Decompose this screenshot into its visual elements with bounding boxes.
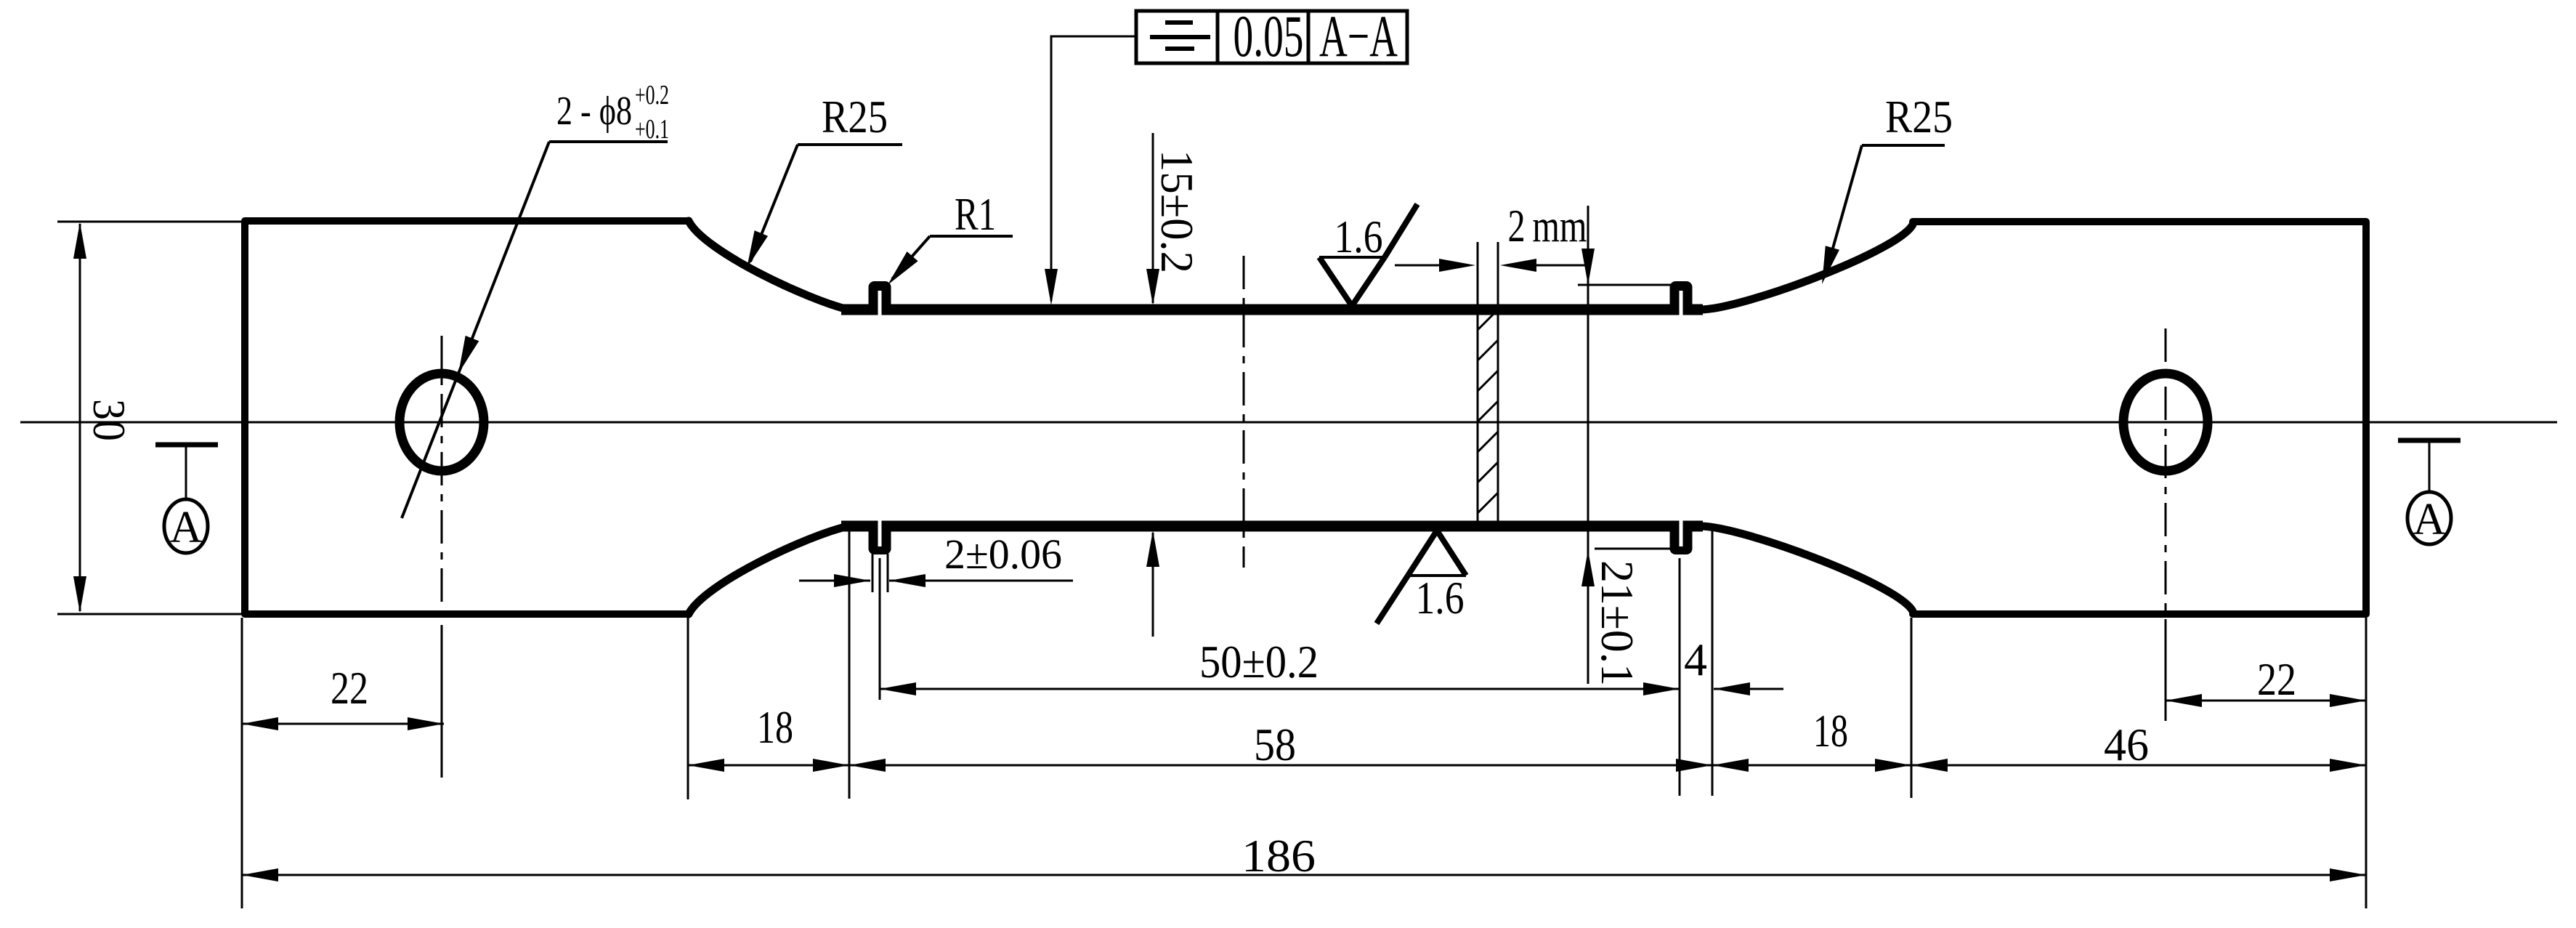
dim 50±0.2 arrow left <box>880 682 916 695</box>
svg-text:R25: R25 <box>1885 91 1953 142</box>
svg-text:4: 4 <box>1684 634 1707 685</box>
gauge section bottom edge <box>841 521 1703 532</box>
svg-text:18: 18 <box>1813 705 1848 756</box>
ext line x2631 <box>1911 618 1913 798</box>
dim 50±0.2 arrow right <box>1643 682 1680 695</box>
R25 fillet top-right <box>1700 222 1913 310</box>
section mark right bar <box>2398 438 2460 443</box>
hole right (phi8) <box>2123 374 2208 471</box>
hatch diagonal lines <box>1478 310 1498 330</box>
svg-text:21±0.1: 21±0.1 <box>1592 560 1643 686</box>
label R1 underline <box>930 235 1013 238</box>
label R25 left underline <box>798 143 902 146</box>
gauge section top edge <box>841 304 1703 315</box>
surface symbol top (1.6) <box>1319 257 1385 306</box>
svg-text:46: 46 <box>2104 719 2149 770</box>
tolerance frame dividers <box>1216 11 1220 63</box>
ext line notch bottom plane <box>1595 548 1675 550</box>
dim 186 arrows <box>242 868 278 881</box>
section mark left bar <box>155 443 218 448</box>
dim 15±0.2 down arrow <box>1146 269 1159 305</box>
vertical centerline left hole <box>441 336 443 625</box>
dim 21±0.1 down arrow <box>1581 249 1595 285</box>
R25 fillet top-left <box>689 221 848 310</box>
dim 46 arrows <box>1911 759 1948 772</box>
ext line x947 <box>687 618 689 799</box>
surface symbol bottom (1.6) <box>1408 530 1466 576</box>
label R25 left arrow <box>747 230 768 268</box>
frame leader arrow <box>1045 269 1058 305</box>
R1 notch top-right <box>1670 281 1693 315</box>
dim 18 right arrows <box>1712 759 1749 772</box>
ext line x1169 <box>848 531 851 799</box>
dim 2±0.06 left arrow <box>834 574 870 587</box>
dim 30 arrow up <box>73 222 86 259</box>
ext line x2357 <box>1712 531 1714 796</box>
section mark left circle <box>164 499 208 553</box>
label R25 right leader <box>1826 145 1862 274</box>
svg-text:2 - ϕ8: 2 - ϕ8 <box>556 89 632 134</box>
svg-text:1.6: 1.6 <box>1334 211 1383 262</box>
dim 30 line <box>79 224 81 611</box>
dim 2mm left shaft <box>1395 265 1442 267</box>
label R25 right underline <box>1862 144 1945 147</box>
dim 2mm left arrow <box>1439 259 1475 272</box>
label 2-phi8 leader <box>402 142 549 518</box>
ext line bottom-left <box>57 613 241 616</box>
label 2-phi8 leader arrow <box>458 336 479 374</box>
dim 186 line <box>242 874 2366 876</box>
dim 2mm right shaft <box>1533 265 1588 267</box>
dim 46 line <box>1911 764 2366 767</box>
svg-text:+0.1: +0.1 <box>635 114 669 145</box>
dim 2±0.06 right shaft <box>889 580 1073 582</box>
label R1 leader <box>892 236 930 279</box>
dim 50±0.2 line <box>880 688 1680 690</box>
svg-text:58: 58 <box>1254 719 1296 770</box>
hatch band left line <box>1477 242 1479 525</box>
ext lines 2±0.06 <box>872 554 874 592</box>
specimen left grip outline <box>245 221 689 614</box>
svg-text:+0.2: +0.2 <box>635 80 669 110</box>
dim 15±0.2 lower line <box>1152 533 1154 637</box>
svg-text:A: A <box>2413 495 2446 544</box>
dim 22 left line <box>242 723 444 725</box>
dim 58 arrows <box>849 759 886 772</box>
hole left (phi8) <box>400 374 484 471</box>
svg-text:2 mm: 2 mm <box>1508 200 1587 251</box>
dim 58 line <box>849 764 1712 767</box>
dim 4 arrow <box>1714 682 1750 695</box>
ext line x2312 (notch center) <box>1679 558 1681 796</box>
hatch band right line <box>1497 242 1499 525</box>
vertical centerline right hole <box>2165 328 2167 621</box>
dim 18 left line <box>688 764 849 767</box>
section mark left stem <box>185 445 187 500</box>
ext line top-left <box>57 221 241 223</box>
section mark right stem <box>2429 440 2431 492</box>
label 2-phi8 underline <box>549 140 668 143</box>
dim 22 left arrows <box>242 717 278 730</box>
svg-text:R1: R1 <box>955 188 996 240</box>
svg-text:A−A: A−A <box>1319 3 1398 69</box>
dim 30 arrow down <box>73 576 86 613</box>
ext line x1211 (notch center) <box>879 558 881 700</box>
R1 notch top-left <box>869 281 891 315</box>
parallelism symbol <box>1165 20 1193 25</box>
tolerance frame box <box>1136 11 1407 63</box>
dim 21±0.1 up arrow <box>1581 550 1595 586</box>
dim 15±0.2 upper line <box>1152 133 1154 303</box>
label R25 left leader <box>750 145 798 262</box>
svg-text:50±0.2: 50±0.2 <box>1199 636 1319 687</box>
dim 2mm right arrow <box>1500 259 1536 272</box>
R1 notch bottom-left <box>869 521 891 554</box>
svg-text:0.05: 0.05 <box>1234 3 1304 69</box>
frame leader <box>1051 36 1136 301</box>
dim 2±0.06 right arrow <box>889 574 926 587</box>
dim 18 left arrows <box>688 759 724 772</box>
svg-text:22: 22 <box>2257 653 2296 705</box>
specimen right grip outline <box>1913 222 2366 614</box>
dim 4 shaft <box>1714 688 1783 690</box>
svg-text:18: 18 <box>757 701 793 753</box>
svg-text:22: 22 <box>331 662 368 714</box>
label R1 arrow <box>888 251 918 285</box>
dim 15±0.2 up arrow <box>1146 530 1159 567</box>
dim 21±0.1 line <box>1587 206 1589 684</box>
R25 fillet bottom-right <box>1700 526 1913 613</box>
ext line x3257 <box>2365 618 2368 908</box>
vertical centerline gauge middle <box>1243 256 1245 568</box>
svg-text:186: 186 <box>1242 830 1316 881</box>
svg-text:2±0.06: 2±0.06 <box>944 530 1062 578</box>
svg-text:30: 30 <box>84 399 135 441</box>
dim 2±0.06 left shaft <box>799 580 870 582</box>
svg-text:R25: R25 <box>822 91 888 142</box>
R1 notch bottom-right <box>1670 521 1693 554</box>
horizontal centerline <box>20 421 2557 424</box>
ext line x333 <box>241 618 243 908</box>
R25 fillet bottom-left <box>689 526 848 614</box>
svg-text:A: A <box>170 503 203 552</box>
dim 18 right line <box>1712 764 1911 767</box>
label R25 right arrow <box>1822 246 1839 284</box>
dim 22 right line <box>2166 700 2366 702</box>
svg-text:15±0.2: 15±0.2 <box>1151 150 1203 273</box>
ext line notch top plane <box>1578 284 1675 286</box>
section mark right circle <box>2407 492 2451 544</box>
svg-text:1.6: 1.6 <box>1416 572 1465 624</box>
dim 22 right arrows <box>2166 694 2202 707</box>
